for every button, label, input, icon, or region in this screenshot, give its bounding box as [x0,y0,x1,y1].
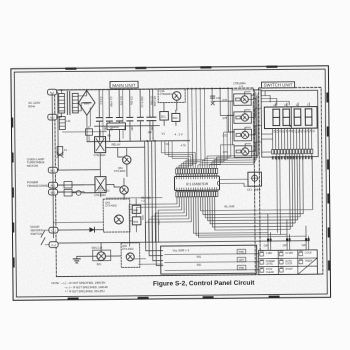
capacitor C2 [106,90,114,139]
op-amp U1 controller IC1 [174,176,219,190]
wire AC line top [57,88,233,92]
transistor Q61 [114,156,131,173]
wire cap partners [103,89,123,138]
wire display continue down [277,154,313,235]
diode D21 [85,126,92,141]
wire Q70 leads [245,90,262,99]
wire terminal column [52,93,53,238]
capacitor C3 [127,89,135,138]
label resistor values [108,131,187,203]
capacitor C4 [147,89,155,138]
node cap bottom [129,138,131,141]
resistor network box [107,123,126,130]
wire Vcc rail switch unit [255,92,258,157]
wire display top stubs [276,103,309,107]
wire main-to-switch runs [212,88,234,145]
border frame outer [11,66,331,301]
wire Q73 leads [245,142,262,151]
wire relay1 top [57,130,100,170]
wire mid bus [94,125,159,128]
capacitor ZD2 [137,89,145,138]
terminal B-2 [48,182,57,188]
node junction T1 top [61,89,63,91]
border fold ticks [10,65,330,300]
label wire colors [251,94,307,248]
wire display feeds [261,91,289,106]
keyboard matrix SW1-SW8 [259,250,318,275]
main unit label [110,81,138,88]
label bundle [141,215,160,225]
label driver outputs [253,98,257,152]
capacitor R1 [116,89,124,138]
wire Q62 [106,178,124,199]
resistor R45 [132,217,141,225]
wire AC feeder column [57,92,60,170]
wire DC bus [87,140,189,143]
node cap bottom [152,138,154,141]
transistor Q70 [222,94,251,106]
transistor Q16 [158,89,185,103]
main unit boundary [55,88,256,277]
border frame inner [14,69,327,297]
terminal B-1 [48,167,57,173]
wire Q16 emitter [176,100,178,110]
node junction DC bus [119,140,156,142]
resistor R44 [132,205,141,213]
diode D30 [57,181,84,188]
door interlock switch [41,230,49,245]
display module outline [261,90,318,157]
node common dots [270,239,291,241]
wire Q40 out [134,259,163,265]
node cap bottom [149,138,151,141]
wire keypad row feeds [193,197,198,238]
wire door row [106,197,162,200]
node cap bottom [109,139,111,142]
wire bottom boundary [56,274,322,277]
wire fan below IC right [200,157,313,230]
transistor Q62 [98,186,128,195]
transistor Q40 [121,243,140,268]
wire display segment lines [272,128,311,149]
transistor Q41 [103,199,130,232]
resonator CF1 [247,172,262,192]
relay RLY1 [94,137,106,158]
wire bridge top to AC bus [86,89,88,91]
wire Q71 leads [245,108,262,117]
pin numbers IC1 bottom [176,188,218,197]
transformer T1 core [67,91,70,114]
diode D31 [58,189,77,196]
ground [73,256,97,263]
transistor Q71 [222,112,251,124]
wire Q61 [106,147,145,176]
wire door area [130,199,137,232]
capacitor C30 [76,190,95,195]
bridge rectifier DB1 [78,90,95,115]
wire buzzer to Q40 [101,242,121,256]
terminal C-1 [49,227,58,233]
label display pins top [273,103,309,106]
label display segment names [272,130,314,134]
resistor R10 [172,110,180,126]
wire nest above IC right [197,94,259,169]
note text [51,281,108,294]
relay RLY2 [94,177,106,198]
wire secondary to bridge [78,91,87,96]
capacitor C1 [96,90,104,139]
node cap bottom [99,139,101,142]
transistor Q72 [223,129,252,141]
capacitor labels row2 [103,126,153,131]
wire keypad columns [267,213,310,250]
seven segment display DS1 [264,107,317,129]
wire display left entries [262,134,273,152]
wire CF1 to IC [219,179,248,186]
terminal A-2 [48,114,57,120]
wire common line [58,238,309,243]
wire Q72 leads [245,126,262,135]
fuse F1 [57,146,68,157]
diode D20 [58,227,104,232]
terminal A-1 [48,89,57,95]
transformer T1 primary [59,90,65,113]
zener ZD1 [160,103,169,126]
wire bridge bottom to DC bus [86,115,88,141]
capacitor R5 [150,89,158,138]
wire return line [63,131,107,133]
node junctions top bus [187,88,229,90]
buzzer BZ1 [92,247,111,267]
connector row display bottom [272,149,313,159]
switch unit label [262,82,295,88]
wire relay2 leads [57,171,100,197]
wire bus to display [232,88,261,96]
wire keypad horizontals [194,232,307,270]
transistor Q73 [223,146,252,158]
connector block CN1 [161,245,257,274]
node cap bottom [140,138,142,141]
wire fan below IC left [129,197,191,247]
wire bus bundle [145,141,163,251]
inductor LF1 [59,116,71,129]
wire nest above IC left [161,89,205,169]
capacitor C15 on feed [211,96,222,105]
terminal B-3 [49,189,58,195]
node cap bottom [119,138,121,141]
wire AC line 2 [57,113,62,117]
transformer T1 secondary [72,93,78,113]
pin numbers IC1 top [176,168,218,179]
switch unit boundary [259,87,323,274]
wire bridge second output [89,108,91,126]
terminal C-2 [49,242,58,248]
wire C-1 feed [53,221,103,223]
